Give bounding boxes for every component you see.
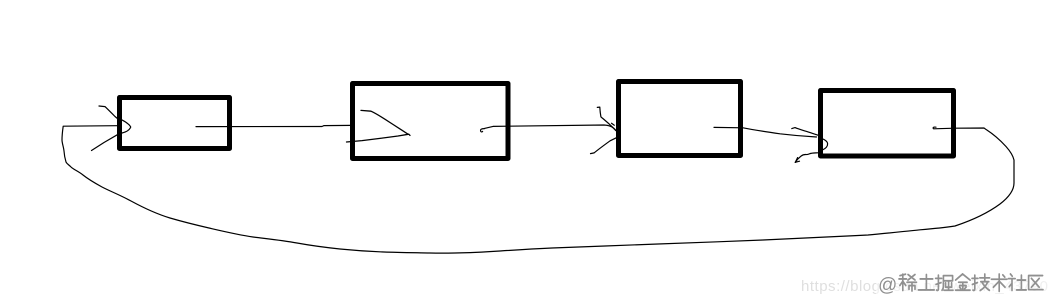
- arrowhead scribble at box3 left: [597, 107, 616, 131]
- wire box3 to box4: [714, 127, 817, 137]
- arrowhead inside box2: [361, 110, 408, 134]
- glyph ji (技): [972, 274, 990, 291]
- node box 4: [821, 91, 954, 157]
- arrowhead scribble at box1 left: [99, 106, 118, 119]
- node box 1: [120, 98, 230, 149]
- arrowhead scribble at box4 left: [792, 128, 818, 136]
- node box 3: [619, 82, 741, 156]
- node box 2: [353, 84, 509, 159]
- glyph xi (稀): [899, 274, 917, 291]
- wire box1 to box2: [196, 125, 351, 126]
- glyph jin (金): [956, 274, 971, 290]
- glyph qu (区): [1029, 276, 1043, 290]
- watermark CJK glyphs (hand-drawn strokes): [899, 274, 1043, 291]
- white veil over hidden part of url text: [876, 268, 1053, 300]
- glyph shu (术): [991, 274, 1007, 291]
- glyph jue (掘): [936, 275, 953, 290]
- glyph tu (土): [918, 275, 934, 290]
- glyph she (社): [1008, 274, 1026, 291]
- loop wire box4 around bottom back to box1: [62, 126, 1014, 253]
- wire box2 to box3 with start hook: [481, 129, 485, 132]
- svg-text:@: @: [878, 275, 897, 296]
